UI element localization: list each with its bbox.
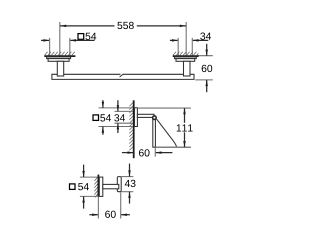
pivot circle: [152, 115, 157, 120]
bar break tick: [120, 74, 124, 77]
dim 43 arrows: [129, 164, 131, 177]
left wall line: [44, 55, 75, 57]
left bracket plate: [47, 57, 71, 59]
dim square-54 top extension line: [80, 176, 98, 178]
dim 111 top extension line: [137, 107, 191, 109]
dim 34 arrows: [117, 100, 119, 111]
dim 60 arrows: [89, 214, 98, 216]
dim 34 extension lines: [177, 38, 179, 57]
dim 60 text: [202, 65, 213, 72]
dim 111 line and arrows: [184, 108, 186, 123]
dim 60 arrows: [206, 44, 208, 56]
dim square-54 label: [70, 184, 76, 190]
right bracket plate: [175, 57, 197, 59]
arm: [103, 184, 119, 188]
dim 54 arrows: [83, 165, 85, 178]
right bracket post: [184, 61, 191, 76]
dim 558 extension line left: [59, 22, 61, 57]
dim 111 bottom extension line: [153, 146, 191, 148]
left bracket post: [57, 61, 63, 76]
dim square-54 left label: [78, 34, 84, 40]
dim 111 text: [177, 124, 193, 131]
dim 60 label: [105, 211, 116, 218]
dim 558 line: [60, 25, 115, 27]
arm: [137, 114, 154, 117]
right wall hatching: [173, 52, 198, 55]
dim square-54 bottom extension line: [99, 126, 134, 128]
dim 60 extension lines: [97, 197, 99, 219]
dim 54 left extension lines: [49, 38, 51, 57]
dim square-54 label: [93, 115, 99, 121]
knob: [117, 177, 121, 192]
dim 34 bottom extension line: [115, 122, 134, 124]
dim 54 arrows: [102, 100, 104, 108]
wall hatching: [129, 102, 133, 150]
plate side profile: [135, 108, 138, 127]
dim square-54 top extension line: [99, 107, 134, 109]
dim 43 label: [125, 180, 136, 187]
dim 60 arrows: [122, 152, 134, 154]
wall hatching: [94, 177, 98, 198]
dim 34 label: [114, 114, 125, 121]
dim 60 text: [139, 149, 150, 156]
left wall hatching: [45, 52, 75, 55]
dim square-54 bottom extension line: [80, 195, 98, 197]
towel bar tube: [52, 74, 194, 79]
dim 558 text: [117, 22, 133, 29]
plate side profile: [99, 177, 103, 196]
dim 558 extension line right: [185, 22, 187, 57]
flap curve: [157, 119, 177, 146]
dim 60 right extension lines: [197, 55, 213, 57]
roll holder bar: [153, 118, 156, 147]
dim 54 left arrows: [41, 39, 50, 41]
wall line vertical: [133, 100, 135, 158]
wall line vertical: [97, 175, 99, 197]
dim 34 top extension line: [115, 110, 134, 112]
dim 43 extension lines: [121, 176, 133, 178]
dim 34 arrows: [170, 39, 178, 41]
right wall line: [173, 55, 199, 57]
dim 60 right extension line: [154, 148, 156, 157]
dim 34 right label: [200, 33, 211, 40]
